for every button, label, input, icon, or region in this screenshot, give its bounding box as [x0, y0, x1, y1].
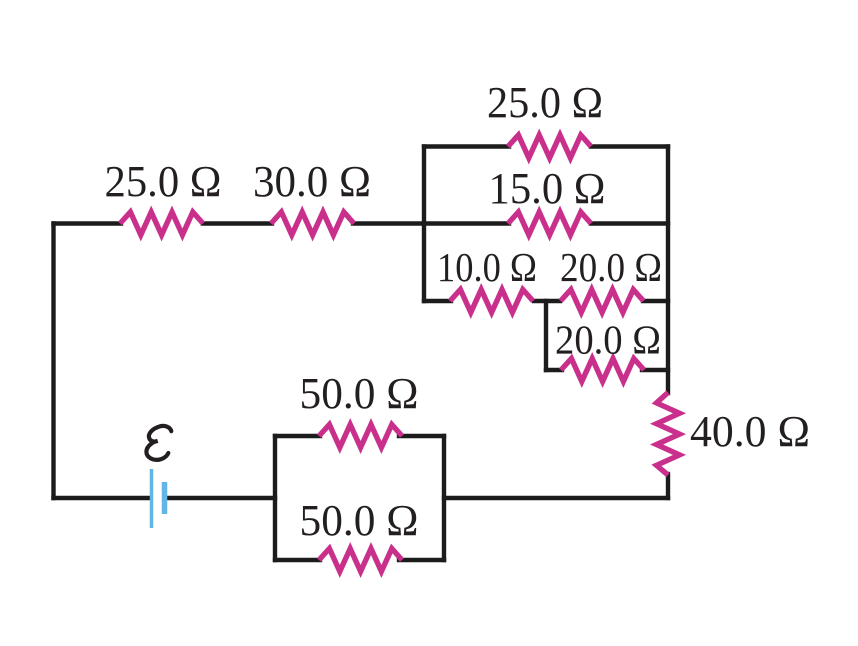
svg-text:25.0 Ω: 25.0 Ω	[487, 78, 603, 127]
svg-text:50.0 Ω: 50.0 Ω	[300, 496, 419, 545]
wire: 15-ohm rail left segment	[424, 221, 509, 225]
wire: box top rail left segment	[424, 144, 509, 148]
wire: box top rail right segment	[591, 144, 668, 148]
wire: right vertical upper (box right edge down to 40-ohm)	[666, 147, 670, 394]
resistor R6 20.0 ohm	[561, 290, 644, 313]
resistor R4 15.0 ohm	[508, 212, 591, 235]
svg-text:30.0 Ω: 30.0 Ω	[253, 157, 371, 206]
wire: node drop between 10-ohm and 20-ohm	[544, 301, 548, 370]
resistor R9 50.0 ohm (top of bottom box)	[319, 425, 402, 448]
wire: from R2 to parallel-box left edge	[353, 221, 424, 225]
wire: third rail between R5 and R6	[534, 299, 560, 303]
wire: fourth rail from R7 to right edge	[642, 368, 668, 372]
resistor R2 30.0 ohm	[271, 212, 354, 235]
resistor R5 10.0 ohm	[450, 290, 533, 313]
wire: 50-ohm box left vertical	[273, 436, 277, 560]
wire: 15-ohm rail right segment	[591, 221, 668, 225]
svg-text:10.0 Ω: 10.0 Ω	[437, 244, 537, 290]
wire: top rail from left corner to resistor R1	[54, 221, 122, 225]
wire: bottom rail from 50-ohm box to battery	[166, 496, 275, 500]
wire: 50-ohm box top rail right segment	[399, 434, 444, 438]
wire: bottom rail from battery to left vertical	[54, 496, 151, 500]
wire: right vertical below 40-ohm	[666, 474, 670, 498]
wire: between R1 and R2	[203, 221, 272, 225]
svg-text:15.0 Ω: 15.0 Ω	[489, 164, 606, 213]
svg-text:20.0 Ω: 20.0 Ω	[560, 244, 662, 290]
resistor R1 25.0 ohm	[120, 212, 203, 235]
wire: 50-ohm box bottom rail left segment	[275, 558, 320, 562]
label battery EMF script-E	[146, 426, 171, 460]
svg-text:25.0 Ω: 25.0 Ω	[105, 157, 222, 206]
svg-text:20.0 Ω: 20.0 Ω	[555, 317, 661, 363]
svg-text:40.0 Ω: 40.0 Ω	[690, 407, 810, 456]
wire: 50-ohm box right vertical	[442, 436, 446, 560]
resistor R8 40.0 ohm (vertical)	[657, 393, 680, 476]
svg-text:50.0 Ω: 50.0 Ω	[300, 369, 419, 418]
wire: 50-ohm box top rail left segment	[275, 434, 320, 438]
battery EMF source: long plate	[150, 469, 154, 528]
wire: third rail from box left to R5	[424, 299, 451, 303]
battery EMF source: short plate	[162, 482, 168, 514]
wire: fourth rail left stub to R7	[546, 368, 562, 372]
resistor R10 50.0 ohm (bottom of bottom box)	[319, 549, 402, 572]
wire: left vertical branch	[51, 224, 55, 499]
resistor R7 20.0 ohm (lower branch)	[561, 359, 644, 382]
wire: third rail from R6 to right edge	[643, 299, 668, 303]
resistor R3 25.0 ohm (top of parallel box)	[508, 135, 591, 158]
wire: parallel box left vertical	[422, 147, 426, 302]
wire: bottom rail from right vertical to 50-ohm box	[444, 496, 668, 500]
wire: 50-ohm box bottom rail right segment	[399, 558, 444, 562]
